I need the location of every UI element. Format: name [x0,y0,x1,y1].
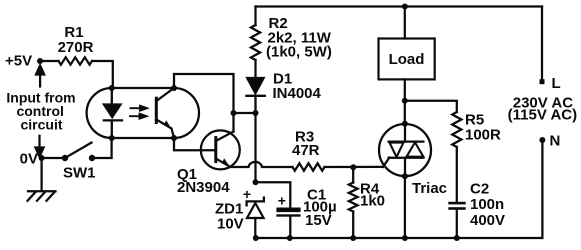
wire N to bottom rail [255,140,542,238]
wire D1 node down to ZD1 junction (with hop over emitter wire) [254,113,256,182]
svg-text:IN4004: IN4004 [273,85,322,102]
node 0V [39,155,45,161]
wire load bottom [404,79,406,123]
resistor R4 [352,167,354,182]
wire ZD1 junction to C1 [256,182,291,207]
node R4 junction [350,164,356,170]
svg-text:Load: Load [389,51,425,68]
input arrow up [36,66,44,87]
wire opto emitter to Q1 base [174,138,214,150]
svg-text:400V: 400V [470,212,505,229]
resistor R3 [293,163,325,170]
svg-text:C2: C2 [470,181,489,198]
terminal L [540,79,545,84]
svg-text:L: L [552,75,561,92]
node Q1 collector junction [231,110,237,116]
triac [379,124,431,176]
svg-text:270R: 270R [58,39,94,56]
svg-text:circuit: circuit [20,117,62,133]
capacitor C2 [448,202,465,205]
wire triac bottom [404,176,406,238]
node load bottom junction [402,98,408,104]
svg-text:SW1: SW1 [63,165,96,182]
opto LED [104,88,122,138]
node rail ZD1 [253,235,259,241]
svg-text:100n: 100n [470,196,504,213]
svg-text:10V: 10V [217,216,244,233]
ground [28,158,56,201]
diode D1 [247,78,263,93]
resistor R1 [59,57,93,64]
node rail R4 [350,235,356,241]
svg-text:+: + [243,186,251,202]
wire Q1 emitter to R3 (hop over ZD1 column) [230,162,293,167]
node rail triac [402,235,408,241]
node opto LED anode [109,85,115,91]
input arrow down [35,136,43,157]
svg-text:+: + [278,193,286,209]
zener ZD1 [247,198,264,206]
transistor Q1 [201,130,240,169]
svg-text:(115V AC): (115V AC) [508,107,577,124]
svg-text:47R: 47R [292,142,320,159]
svg-text:1k0: 1k0 [360,193,385,210]
wire SW1 to opto LED cathode [92,138,112,158]
svg-text:0V: 0V [20,151,38,168]
svg-text:100R: 100R [465,127,501,144]
wire R3 to triac gate [325,166,384,168]
node opto emitter [171,135,177,141]
top rail [256,5,543,7]
wire 0V to SW1 [42,157,65,159]
svg-text:N: N [550,133,561,150]
resistor R2 [254,7,256,26]
node D1 cathode [253,110,259,116]
optocoupler body [87,88,199,138]
capacitor C1 [276,208,300,213]
wire +5V to R1 [40,60,59,62]
node +5V [37,58,43,64]
wire top rail to L terminal [541,7,543,82]
svg-text:2N3904: 2N3904 [177,179,230,196]
svg-text:15V: 15V [305,212,332,229]
svg-text:Triac: Triac [412,180,447,197]
opto phototransistor [155,98,158,122]
svg-text:(1k0, 5W): (1k0, 5W) [266,44,332,61]
terminal N [539,137,545,143]
wire R1 to opto LED anode [92,61,113,88]
node ZD1/C1 junction [253,179,259,185]
wire opto collector loop to Q1 [174,74,234,132]
opto light arrows [130,106,147,119]
resistor R5 [452,112,461,147]
node opto collector [171,85,177,91]
wire Q1 collector to D1 node [234,112,256,114]
node load top [402,4,408,10]
load box [379,39,435,80]
wire load top [404,7,406,39]
node rail C1 [287,235,293,241]
switch SW1 [62,155,68,161]
node opto LED cathode [109,135,115,141]
svg-text:+5V: +5V [5,53,32,70]
wire junction to R5 [405,101,457,112]
node rail C2 [454,235,460,241]
